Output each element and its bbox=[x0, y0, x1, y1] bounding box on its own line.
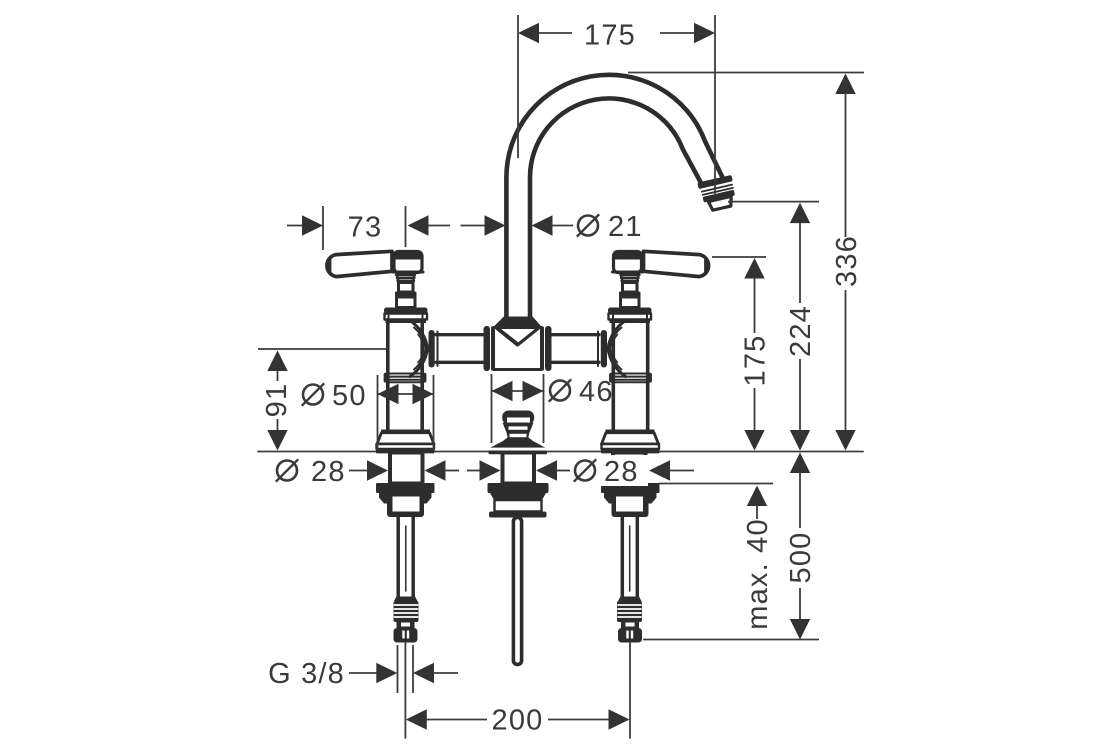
base dark band bbox=[376, 449, 435, 453]
hose nut bbox=[394, 628, 418, 643]
bonnet dark band bbox=[395, 292, 417, 298]
max40 extension line bbox=[659, 483, 774, 485]
pop-up rod bbox=[513, 518, 521, 665]
bottom extension line bbox=[643, 639, 819, 641]
svg-text:500: 500 bbox=[785, 532, 817, 584]
right valve column (mirror) bbox=[601, 251, 709, 642]
dimension 336 bbox=[835, 74, 855, 95]
bonnet box bbox=[397, 297, 416, 308]
lock nut top band bbox=[376, 483, 435, 493]
svg-text:224: 224 bbox=[785, 305, 817, 357]
dimension 73 bbox=[322, 206, 324, 250]
spout outer arc bbox=[506, 75, 722, 320]
svg-text:175: 175 bbox=[740, 335, 772, 387]
center shank centerlines bbox=[404, 643, 406, 739]
left ball joint cone bbox=[410, 321, 428, 377]
left valve column bbox=[327, 251, 435, 642]
base thin band bbox=[381, 430, 430, 433]
dimension max 40 bbox=[747, 486, 767, 507]
dimension 175 right bbox=[744, 258, 764, 279]
dimension 224 bbox=[790, 203, 810, 224]
spout inner arc bbox=[530, 98, 701, 320]
dimension diameter 46 bbox=[491, 374, 493, 443]
adapter top bbox=[394, 597, 418, 602]
bridge tube right bbox=[552, 333, 600, 336]
deck line bbox=[258, 451, 863, 453]
center nut bbox=[488, 483, 549, 493]
handle extension line bbox=[712, 256, 766, 258]
lever grip bbox=[327, 251, 392, 276]
svg-text:200: 200 bbox=[492, 705, 544, 737]
center flange bbox=[489, 512, 547, 518]
left joint flange bbox=[429, 330, 435, 368]
top flange bbox=[384, 308, 428, 314]
neck box bbox=[399, 283, 414, 293]
dimension 500 bbox=[790, 453, 810, 474]
spout outlet bbox=[697, 175, 738, 212]
svg-text:46: 46 bbox=[579, 376, 614, 408]
top extension line bbox=[628, 72, 864, 74]
dimension diameter 50 bbox=[377, 375, 379, 450]
knob neck stripes bbox=[509, 426, 528, 429]
center dark band bbox=[489, 451, 548, 455]
base white band bbox=[377, 444, 435, 449]
svg-text:91: 91 bbox=[261, 383, 293, 418]
bridge center block bbox=[494, 328, 542, 370]
dimension 175 top bbox=[517, 15, 519, 158]
base flare bbox=[377, 433, 434, 444]
dimension diameter 28 right bbox=[572, 455, 648, 486]
center shank bbox=[503, 453, 535, 484]
dimension diameter 21 bbox=[485, 215, 506, 235]
center block left flange bbox=[484, 326, 491, 371]
center block right flange bbox=[545, 326, 552, 371]
supply tube bbox=[396, 517, 400, 597]
thin dark band bbox=[386, 320, 427, 324]
flange white band bbox=[385, 314, 428, 320]
right joint flange bbox=[601, 330, 607, 368]
svg-text:28: 28 bbox=[604, 456, 639, 488]
dimension 91 bbox=[258, 348, 386, 350]
svg-text:73: 73 bbox=[348, 212, 383, 244]
lock nut collar bbox=[387, 496, 424, 517]
ribbed adapter bbox=[394, 601, 419, 622]
bridge tube left bbox=[436, 333, 484, 336]
chevron in center block bbox=[497, 329, 538, 346]
svg-text:G 3/8: G 3/8 bbox=[268, 658, 345, 690]
svg-text:50: 50 bbox=[332, 380, 367, 412]
adapter neck bbox=[397, 622, 415, 629]
pop-up knob bbox=[502, 411, 534, 425]
svg-text:175: 175 bbox=[584, 20, 636, 52]
T junction bbox=[494, 317, 542, 328]
shank bbox=[390, 453, 423, 484]
svg-text:max. 40: max. 40 bbox=[742, 518, 774, 630]
dimension G 3/8 bbox=[397, 645, 399, 693]
svg-text:28: 28 bbox=[311, 456, 346, 488]
dimension 200 bbox=[406, 709, 427, 729]
lock nut window bbox=[393, 497, 420, 512]
bell skirt bbox=[490, 441, 546, 448]
pivot block bbox=[394, 252, 422, 273]
lock nut sides bbox=[379, 493, 432, 504]
svg-text:21: 21 bbox=[608, 211, 643, 243]
svg-text:336: 336 bbox=[831, 235, 863, 287]
dimension diameter 28 left bbox=[276, 456, 346, 488]
neck ribs bbox=[397, 274, 415, 283]
center white band bbox=[495, 500, 542, 512]
cylinder rings bbox=[387, 373, 423, 375]
outlet extension line bbox=[728, 201, 819, 203]
right ball joint cone bbox=[608, 321, 626, 377]
cylinder walls bbox=[386, 323, 390, 430]
